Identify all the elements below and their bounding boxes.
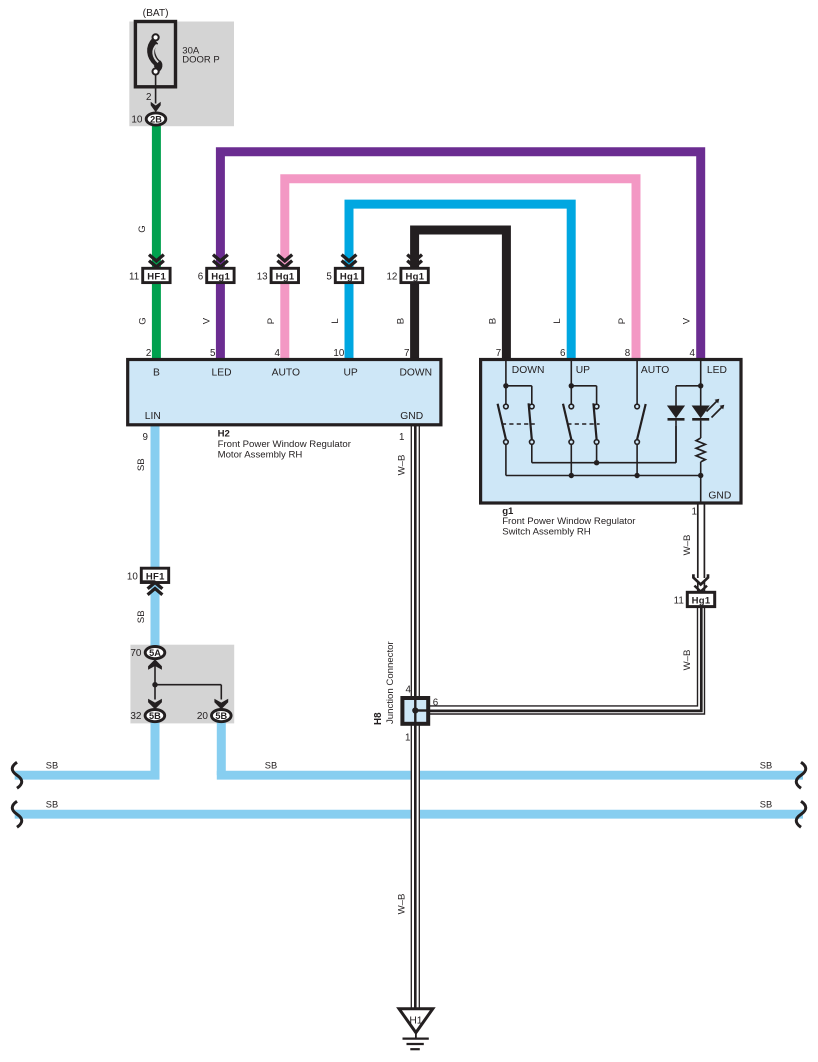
svg-text:P: P bbox=[266, 318, 277, 324]
connector 10 HF1 (SB wire) bbox=[141, 568, 168, 582]
fuse 30A DOOR P bbox=[135, 22, 175, 87]
svg-text:P: P bbox=[617, 318, 628, 324]
wire SB splice 20-5B down to bus bbox=[217, 717, 226, 775]
svg-text:8: 8 bbox=[625, 348, 631, 359]
wire L (blue) H2 UP pin10 to g1 UP pin6 bbox=[349, 204, 571, 359]
svg-text:Front Power Window Regulator: Front Power Window Regulator bbox=[218, 439, 352, 450]
svg-text:SB: SB bbox=[46, 760, 58, 770]
svg-text:1: 1 bbox=[399, 432, 404, 443]
white crossing gaps over SB buses bbox=[411, 770, 420, 781]
svg-text:LED: LED bbox=[707, 365, 727, 376]
svg-text:7: 7 bbox=[404, 348, 409, 359]
svg-text:6: 6 bbox=[433, 698, 439, 709]
svg-text:LIN: LIN bbox=[145, 411, 161, 422]
svg-text:6: 6 bbox=[560, 348, 566, 359]
svg-text:4: 4 bbox=[406, 685, 412, 696]
svg-text:Hg1: Hg1 bbox=[211, 272, 230, 283]
arrow into splice 5A bbox=[148, 659, 162, 670]
LED D2 with emission arrows bbox=[692, 406, 710, 419]
wire W-B g1 GND pin1 down to connector 11 Hg1 (double line) bbox=[697, 503, 699, 595]
svg-text:AUTO: AUTO bbox=[641, 365, 669, 376]
svg-text:Motor Assembly RH: Motor Assembly RH bbox=[218, 450, 303, 461]
svg-text:Front Power Window Regulator: Front Power Window Regulator bbox=[502, 516, 636, 527]
svg-text:G: G bbox=[137, 225, 148, 232]
svg-text:DOWN: DOWN bbox=[512, 365, 545, 376]
svg-text:G: G bbox=[137, 317, 148, 324]
svg-text:L: L bbox=[552, 318, 563, 324]
svg-text:20: 20 bbox=[197, 711, 209, 722]
arrow into splice 20-5B bbox=[214, 699, 228, 710]
g1 LED branch wiring bbox=[700, 360, 702, 386]
svg-text:GND: GND bbox=[708, 491, 731, 502]
wire SB from H2 LIN pin9 down to splice 5A bbox=[151, 425, 160, 651]
svg-text:DOWN: DOWN bbox=[399, 368, 432, 379]
svg-text:LED: LED bbox=[211, 368, 231, 379]
SB bus lower full segment bbox=[15, 810, 803, 819]
svg-text:UP: UP bbox=[343, 368, 357, 379]
junction dot bbox=[152, 682, 157, 687]
svg-text:12: 12 bbox=[386, 272, 397, 283]
svg-text:V: V bbox=[682, 317, 693, 324]
g1 GND pin lead bbox=[700, 476, 702, 504]
g1 inner bus upper (to LED cathode) bbox=[531, 444, 533, 462]
connector 6 Hg1 (violet wire) bbox=[213, 255, 228, 261]
svg-text:Hg1: Hg1 bbox=[692, 596, 711, 607]
svg-text:2B: 2B bbox=[150, 114, 162, 124]
svg-text:5: 5 bbox=[326, 272, 332, 283]
connector 5B bbox=[212, 710, 232, 722]
fuse panel background bbox=[129, 22, 234, 127]
svg-text:HF1: HF1 bbox=[146, 572, 165, 583]
svg-text:5: 5 bbox=[210, 348, 216, 359]
svg-text:SB: SB bbox=[760, 760, 772, 770]
wire W-B H2 GND pin1 down to junction connector bbox=[410, 425, 412, 697]
svg-text:10: 10 bbox=[333, 348, 344, 359]
diode D1 (LED left) bbox=[667, 406, 685, 419]
splice panel background bbox=[130, 645, 234, 724]
svg-text:6: 6 bbox=[198, 272, 204, 283]
svg-text:W–B: W–B bbox=[682, 650, 693, 671]
svg-text:V: V bbox=[201, 317, 212, 324]
svg-text:10: 10 bbox=[127, 572, 138, 583]
wire B (black) H2 DOWN pin7 to g1 DOWN pin7 bbox=[415, 230, 507, 360]
svg-text:11: 11 bbox=[674, 596, 684, 607]
SB bus upper-left segment bbox=[15, 771, 160, 780]
svg-text:H2: H2 bbox=[218, 428, 230, 439]
svg-text:1: 1 bbox=[405, 733, 410, 744]
svg-text:(BAT): (BAT) bbox=[143, 8, 169, 19]
connector 5 Hg1 (blue wire) bbox=[342, 255, 357, 261]
svg-text:B: B bbox=[396, 318, 407, 324]
connector 12 Hg1 (black wire) bbox=[407, 255, 422, 261]
arrow into splice 32-5B bbox=[148, 699, 162, 710]
bus break marks bbox=[12, 762, 22, 788]
resistor (LED ballast) bbox=[696, 438, 705, 462]
svg-text:L: L bbox=[330, 318, 341, 324]
wire P (pink) H2 AUTO pin4 to g1 AUTO pin8 bbox=[285, 179, 636, 360]
svg-text:W–B: W–B bbox=[682, 535, 693, 556]
switch assembly g1 box bbox=[481, 360, 741, 504]
svg-text:Junction Connector: Junction Connector bbox=[385, 641, 396, 724]
svg-text:H8: H8 bbox=[373, 712, 384, 725]
svg-text:5B: 5B bbox=[149, 711, 161, 721]
splice lead lines bbox=[154, 661, 156, 685]
svg-text:10: 10 bbox=[131, 115, 143, 126]
svg-text:13: 13 bbox=[257, 272, 268, 283]
svg-text:SB: SB bbox=[46, 799, 58, 809]
svg-text:2: 2 bbox=[146, 348, 151, 359]
svg-text:AUTO: AUTO bbox=[272, 368, 300, 379]
SB bus upper-right segment bbox=[217, 771, 803, 780]
svg-text:5A: 5A bbox=[149, 648, 161, 658]
svg-text:Hg1: Hg1 bbox=[340, 272, 359, 283]
svg-text:W–B: W–B bbox=[396, 455, 407, 476]
svg-text:Hg1: Hg1 bbox=[405, 272, 424, 283]
connector 5A bbox=[145, 647, 165, 659]
svg-text:Switch Assembly RH: Switch Assembly RH bbox=[502, 527, 591, 538]
svg-text:4: 4 bbox=[274, 348, 280, 359]
wire SB splice 32-5B down to bus bbox=[151, 717, 160, 775]
connector 13 Hg1 (pink wire) bbox=[277, 255, 292, 261]
svg-text:H1: H1 bbox=[409, 1016, 422, 1027]
svg-text:B: B bbox=[487, 318, 498, 324]
svg-text:11: 11 bbox=[129, 272, 139, 283]
connector 2B bbox=[146, 113, 166, 125]
wire G (green) fuse to H2 pin 2 bbox=[152, 126, 161, 360]
svg-text:7: 7 bbox=[496, 348, 501, 359]
connector 11 Hg1 (W-B wire) bbox=[694, 578, 707, 584]
g1 inner bus lower (to GND) bbox=[505, 444, 507, 475]
svg-text:W–B: W–B bbox=[396, 894, 407, 915]
junction connector H8 box bbox=[402, 698, 428, 724]
svg-text:5B: 5B bbox=[215, 711, 227, 721]
svg-text:4: 4 bbox=[689, 348, 695, 359]
svg-text:2: 2 bbox=[146, 92, 151, 103]
svg-text:DOOR P: DOOR P bbox=[182, 55, 219, 66]
svg-text:SB: SB bbox=[136, 458, 147, 471]
wire W-B junction connector down to ground H1 bbox=[410, 725, 412, 1010]
connector 5B bbox=[145, 710, 165, 722]
wire W-B connector 11 Hg1 down and left to junction pin 6 bbox=[430, 607, 698, 706]
svg-text:SB: SB bbox=[136, 610, 147, 623]
g1 UP rocker switch bbox=[570, 360, 572, 386]
svg-text:70: 70 bbox=[130, 648, 142, 659]
svg-text:UP: UP bbox=[576, 365, 590, 376]
svg-text:SB: SB bbox=[760, 799, 772, 809]
svg-text:B: B bbox=[153, 368, 160, 379]
g1 AUTO switch bbox=[636, 360, 638, 405]
svg-text:Hg1: Hg1 bbox=[276, 272, 295, 283]
connector 11 HF1 (green G wire) bbox=[149, 255, 164, 261]
g1 DOWN rocker switch bbox=[505, 360, 507, 386]
svg-text:9: 9 bbox=[143, 432, 148, 443]
svg-text:32: 32 bbox=[130, 711, 142, 722]
motor assembly H2 box bbox=[128, 360, 441, 425]
ground H1 bbox=[399, 1009, 433, 1033]
arrow into connector 2B bbox=[151, 102, 161, 113]
wire V (violet) H2 LED pin5 to g1 LED pin4 bbox=[220, 152, 700, 360]
svg-text:GND: GND bbox=[400, 411, 423, 422]
svg-text:SB: SB bbox=[265, 760, 277, 770]
fuse lead wire bbox=[155, 75, 157, 104]
svg-text:HF1: HF1 bbox=[147, 272, 166, 283]
svg-text:1: 1 bbox=[692, 507, 697, 518]
